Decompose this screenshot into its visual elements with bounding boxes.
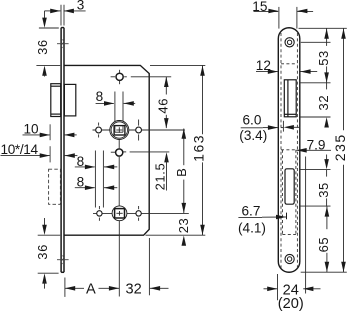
faceplate break mark top (57, 40, 69, 48)
dim 8 (spindle square) (96, 89, 136, 106)
dim 35 (316, 155, 331, 206)
centerline below WC hub to bottom ext (118, 221, 120, 297)
dim 7.9 (283, 121, 331, 153)
svg-text:(4.1): (4.1) (238, 221, 266, 236)
plate outline (stadium) (278, 28, 300, 273)
svg-text:53: 53 (316, 50, 331, 66)
dim 8 (third) (75, 175, 118, 190)
dim A / 32 bottom row (65, 238, 169, 297)
faceplate break mark bottom (57, 256, 69, 264)
dim 23 (176, 218, 191, 246)
svg-text:(3.4): (3.4) (239, 128, 267, 143)
svg-text:163: 163 (191, 134, 207, 162)
bottom screw hole (285, 254, 294, 263)
dim 235 (332, 29, 348, 273)
svg-text:6.0: 6.0 (243, 113, 262, 128)
lower left hole (97, 211, 102, 216)
centerline hub column down to WC hub (118, 157, 120, 208)
deadbolt cutout dashed (281, 150, 297, 235)
dim 15 (252, 0, 313, 29)
ext: below-hole row for 21.5 (123, 151, 126, 153)
svg-text:235: 235 (332, 133, 348, 161)
latch cutout dashed top (281, 63, 297, 65)
dim 46 (156, 77, 171, 129)
hub centerline horizontal (row y=130) (93, 129, 146, 131)
svg-text:46: 46 (156, 98, 171, 114)
dim 163 (191, 66, 207, 235)
mystery vertical ext (305, 157, 307, 294)
dim B (174, 129, 189, 214)
op hub: follower circle + 8mm square (110, 121, 129, 140)
ext: hub row to B (145, 129, 185, 131)
dim 65 (316, 206, 331, 272)
dim 24 (20) (264, 274, 321, 311)
dim 12 (256, 58, 317, 74)
lower right hole (136, 211, 141, 216)
svg-text:10*/14: 10*/14 (1, 142, 39, 157)
ext: lower hub row to B/23 (145, 212, 189, 214)
latch housing (right of faceplate) (64, 84, 75, 116)
svg-text:A: A (86, 281, 96, 297)
dim 10*/14 (1, 142, 78, 158)
spindle ext lines (8mm square) (114, 92, 116, 132)
dim 8 (second) (75, 154, 118, 169)
plate variant dashed lines (20mm) (281, 33, 297, 268)
svg-text:15: 15 (252, 0, 267, 14)
left hole (96, 127, 102, 133)
svg-text:(20): (20) (278, 296, 304, 311)
svg-text:65: 65 (316, 237, 331, 253)
svg-text:35: 35 (316, 182, 331, 198)
dim 36 top (36, 11, 60, 77)
case top ext right + case bottom ext right (150, 64, 205, 66)
lock case outline (64, 65, 149, 235)
8-dim ext lines (lower holes column) (94, 151, 96, 208)
top screw hole (285, 38, 294, 47)
svg-text:32: 32 (316, 95, 331, 111)
hole below hub (118, 140, 120, 148)
deadbolt dashed (49, 169, 61, 204)
ext: top hole row to 46 (124, 76, 127, 78)
right hole (136, 127, 142, 133)
svg-text:36: 36 (36, 244, 50, 260)
dim 10 (23, 121, 77, 137)
latch bolt (left of faceplate) (51, 84, 61, 117)
dim 21.5 (154, 152, 169, 190)
dim 6.0 (3.4) (239, 113, 278, 144)
right view extension lines (299, 27, 347, 29)
dim 32 (right) (316, 83, 331, 128)
svg-text:B: B (174, 168, 189, 177)
svg-text:10: 10 (24, 121, 40, 136)
svg-text:23: 23 (176, 218, 191, 233)
faceplate bottom ext left (38, 272, 59, 274)
deadbolt front (285, 169, 294, 204)
WC hub (112, 206, 127, 221)
dim 3 (faceplate thickness) (45, 0, 86, 26)
dim 36 bottom (36, 218, 50, 289)
lower row centerline (93, 212, 145, 214)
svg-text:8: 8 (96, 89, 104, 104)
latch projection dashed line (49, 124, 51, 162)
latch cutout dashed bottom (281, 127, 284, 129)
svg-text:3: 3 (77, 0, 85, 13)
top hole centerlines (111, 76, 115, 78)
svg-text:36: 36 (36, 39, 50, 55)
case bottom ext left / case top ext left is in 36 groups (38, 234, 61, 236)
svg-text:32: 32 (126, 281, 142, 297)
top hole (116, 73, 123, 80)
dim 6.7 (4.1) (238, 203, 286, 235)
svg-text:6.7: 6.7 (242, 203, 261, 218)
faceplate bar (61, 28, 64, 273)
svg-text:21.5: 21.5 (154, 163, 168, 191)
dim 53 (316, 29, 331, 83)
latch front (284, 80, 296, 117)
